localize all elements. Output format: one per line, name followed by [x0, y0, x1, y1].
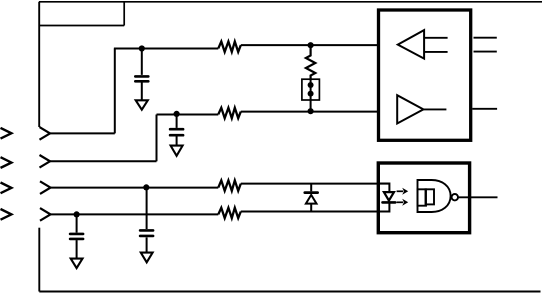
NAND U2A inversion bubble: [452, 194, 458, 200]
resistor R4: [218, 208, 241, 218]
jumper bridge JP1 center wire: [310, 79, 312, 111]
wire U1B output inside: [423, 108, 446, 110]
node off-page chevron row1 left: [1, 128, 12, 139]
capacitor C3 lead lower: [76, 240, 78, 258]
wire 1 riser: [114, 49, 116, 134]
wire 1 right segment to IC1: [241, 44, 378, 46]
connector block J1 (top-left box): [39, 2, 124, 26]
wire 2 upper horizontal to resistor: [157, 114, 219, 116]
NAND U2A hysteresis box left: [418, 189, 427, 205]
wire left border upper segment: [38, 2, 40, 127]
wire 3 right segment into IC2: [241, 183, 390, 185]
wire U1A output B inside: [424, 51, 448, 53]
resistor R1: [218, 42, 241, 52]
capacitor C1 lead upper: [141, 49, 143, 75]
node input chevron 3: [40, 181, 51, 194]
node junction dot wire4/C3: [74, 211, 80, 217]
wire LED top corner: [380, 184, 389, 192]
capacitor C2 lead lower: [176, 136, 178, 145]
node junction dot wire3/C4: [143, 184, 149, 190]
LED light arrow lower: [397, 199, 409, 206]
jumper bridge JP1 box: [302, 79, 320, 100]
wire U1A output A inside: [424, 37, 448, 39]
IC U2 box (optocoupler gate): [378, 163, 469, 233]
capacitor C4 lead upper: [146, 187, 148, 229]
node off-page chevron row4 left: [1, 209, 12, 220]
wire 4 right segment into IC2: [241, 211, 390, 213]
resistor R5 vertical: [306, 45, 315, 79]
capacitor C1 plates: [135, 76, 148, 81]
resistor R2: [218, 108, 241, 118]
node input chevron 2: [40, 155, 51, 168]
diode D1 anode triangle: [306, 195, 317, 204]
node junction dot wire1/C1: [139, 45, 145, 51]
wire 3 left horizontal: [51, 187, 219, 189]
NAND gate U2A body: [418, 180, 451, 212]
capacitor C4 plates: [140, 230, 153, 236]
capacitor C2 plates: [170, 129, 183, 135]
op-amp U1B driver triangle: [397, 95, 423, 123]
diode D1 lead lower: [310, 204, 312, 212]
wire 1 upper horizontal to resistor: [114, 48, 218, 50]
capacitor C3 lead upper: [76, 214, 78, 232]
ground symbol C2: [171, 146, 183, 156]
capacitor C4 lead lower: [146, 237, 148, 252]
wire U1 pin stub A outside: [474, 37, 497, 39]
capacitor C3 plates: [70, 234, 83, 239]
node junction dot wire2/JP1: [308, 108, 314, 114]
wire 2 right segment to IC1: [241, 111, 378, 113]
ground symbol C1: [136, 100, 148, 109]
wire 4 left horizontal: [51, 213, 219, 215]
resistor R3: [218, 180, 241, 190]
diode D1 cathode bar: [305, 191, 318, 194]
jumper bridge JP1 pad dot upper: [308, 82, 314, 88]
LED D2 anode triangle: [384, 192, 394, 201]
ground symbol C3: [71, 259, 83, 269]
wire 1 left horizontal: [50, 132, 115, 134]
node input chevron 4: [40, 208, 51, 221]
NAND U2A hysteresis box right: [426, 189, 435, 204]
node off-page chevron row2 left: [1, 157, 12, 168]
diode D1 lead upper: [310, 184, 312, 192]
wire LED bottom corner: [380, 203, 389, 211]
LED D2 cathode bar: [383, 201, 396, 204]
node input chevron 1: [40, 127, 51, 140]
op-amp U1A receiver triangle: [398, 30, 424, 58]
wire U1B pin stub outside: [472, 108, 497, 110]
wire 2 riser: [156, 115, 158, 162]
IC U1 box (transceiver): [379, 10, 471, 140]
node junction dot wire1/R5: [308, 42, 314, 48]
wire top border line: [39, 1, 542, 3]
LED light arrow upper: [397, 188, 409, 195]
wire left border lower segment: [38, 228, 40, 292]
wire U2 output: [458, 196, 498, 198]
wire 2 left horizontal: [50, 160, 157, 162]
jumper bridge JP1 pad dot lower: [308, 91, 314, 97]
capacitor C1 lead lower: [141, 83, 143, 101]
wire bottom border line: [39, 291, 540, 293]
ground symbol C4: [141, 253, 153, 263]
capacitor C2 lead upper: [176, 114, 178, 128]
wire U1 pin stub B outside: [474, 51, 497, 53]
node junction dot wire2/C2: [174, 111, 180, 117]
node off-page chevron row3 left: [1, 183, 12, 194]
